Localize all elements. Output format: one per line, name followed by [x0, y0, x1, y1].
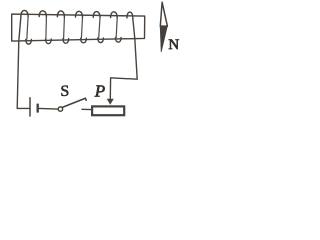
wire: coil front strand 5 [99, 18, 100, 38]
wire: coil front strand 1 [27, 17, 28, 40]
switch S pivot circle [58, 107, 62, 111]
compass needle lower half (filled N pole) [160, 26, 167, 52]
wire: coil bottom loop 6 [115, 38, 121, 43]
wire: coil front strand 6 [116, 18, 117, 38]
rheostat P slider arrowhead [107, 99, 114, 105]
compass needle upper half (outline) [160, 2, 167, 26]
svg-text:P: P [94, 81, 105, 100]
svg-text:N: N [168, 37, 179, 53]
wire: coil bottom loop 4 [81, 38, 87, 43]
wire: battery to switch [39, 107, 58, 110]
battery long plate (+) [29, 98, 31, 116]
solenoid L1 core frame [12, 14, 145, 41]
wire: coil front strand 2 [45, 17, 48, 39]
wire: right lead from coil with jog down to rheostat slider [110, 18, 137, 99]
wire: coil top loop 1 [21, 10, 28, 16]
wire: coil top loop 6 [111, 12, 118, 18]
wire: coil top loop 5 [93, 12, 100, 18]
wire: coil bottom loop 5 [98, 38, 104, 43]
wire: coil bottom loop 3 [63, 39, 69, 44]
svg-text:S: S [60, 83, 69, 100]
wire: left lead from coil down to battery [17, 16, 29, 108]
rheostat P body [92, 106, 124, 115]
wire: coil top loop 7 [127, 12, 133, 18]
wire: coil front strand 4 [81, 17, 82, 38]
switch S blade (open) [63, 98, 87, 107]
wire: coil top loop 4 [75, 11, 82, 17]
wire: switch contact stub to rheostat [82, 108, 91, 110]
wire: coil top loop 3 [57, 11, 64, 17]
wire: coil top loop 2 [39, 11, 46, 17]
wire: coil bottom loop 1 [26, 39, 32, 44]
wire: coil bottom loop 2 [46, 39, 52, 44]
battery short plate (-) [37, 104, 39, 113]
wire: coil front strand 3 [63, 17, 66, 38]
